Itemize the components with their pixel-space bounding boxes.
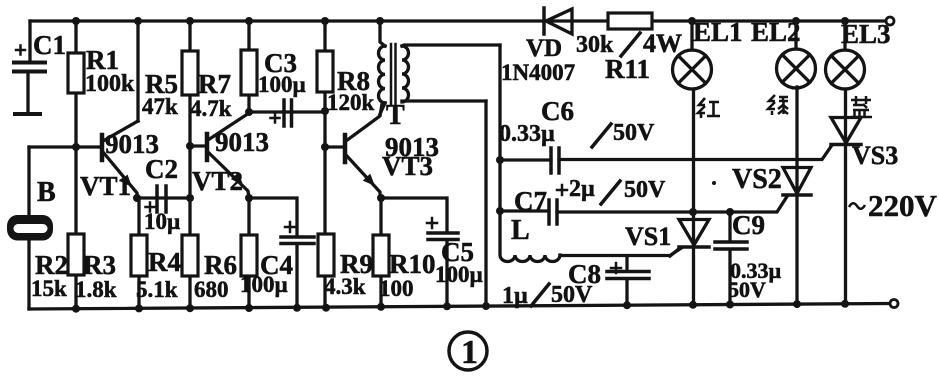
- figure number 1 in circle: [449, 332, 487, 370]
- transistor VT1: [102, 21, 138, 198]
- resistor R7: [241, 50, 257, 95]
- svg-text:VD: VD: [526, 35, 562, 62]
- resistor R1: [68, 53, 84, 93]
- wire left drop from rail to C1: [28, 21, 31, 61]
- lamp EL1: [673, 21, 712, 89]
- terminal circle top right: [886, 17, 894, 25]
- slash 30k/4W: [621, 33, 640, 56]
- svg-text:EL3: EL3: [841, 19, 891, 49]
- capacitor C5: [380, 198, 458, 306]
- wire secondary top to bottom rail: [484, 101, 487, 306]
- resistor R5: [182, 51, 198, 95]
- capacitor C6 and its wire: [500, 145, 832, 173]
- svg-text:R3: R3: [83, 250, 116, 280]
- hanzi blue: [851, 96, 872, 117]
- svg-text:120k: 120k: [327, 90, 375, 115]
- transistor VT3: [325, 104, 382, 198]
- svg-text:VS1: VS1: [625, 222, 671, 251]
- wire B column: [27, 147, 30, 309]
- svg-text:10µ: 10µ: [144, 209, 180, 234]
- svg-text:R6: R6: [204, 250, 237, 280]
- svg-text:VT3: VT3: [382, 151, 433, 181]
- resistor R10: [373, 235, 389, 276]
- wire top rail: [30, 19, 886, 22]
- svg-text:9013: 9013: [215, 127, 269, 157]
- slash C7: [601, 181, 620, 204]
- wire secondary bottom feed column: [498, 45, 501, 252]
- capacitor C9: [715, 212, 747, 305]
- svg-text:47k: 47k: [142, 94, 178, 119]
- svg-text:EL1: EL1: [693, 17, 743, 47]
- transformer T: [379, 21, 501, 114]
- wire R8-R9 column: [323, 21, 326, 308]
- svg-text:100µ: 100µ: [240, 272, 288, 297]
- resistor R6: [241, 235, 257, 276]
- hanzi red: [698, 98, 720, 118]
- capacitor C1: [14, 46, 45, 115]
- svg-text:C7: C7: [514, 186, 547, 216]
- terminal circle bottom right: [890, 300, 898, 308]
- resistor R11: [608, 13, 652, 29]
- resistor R3: [131, 235, 147, 276]
- svg-text:VS2: VS2: [732, 164, 782, 195]
- svg-text:5.1k: 5.1k: [136, 277, 178, 302]
- thyristor VS3: [831, 89, 861, 304]
- lamp EL2: [777, 21, 816, 88]
- capacitor C4: [249, 198, 314, 308]
- wire R1-R2 column: [74, 21, 77, 309]
- hanzi green: [768, 95, 788, 115]
- svg-text:L: L: [511, 215, 530, 246]
- transistor VT3 emitter arrow: [363, 174, 375, 186]
- svg-text:4.7k: 4.7k: [190, 96, 232, 121]
- slash C6: [592, 124, 611, 147]
- svg-text:VS3: VS3: [852, 141, 898, 170]
- resistor R4: [182, 235, 198, 276]
- capacitor C2: [137, 186, 189, 212]
- svg-text:VT1: VT1: [80, 171, 131, 201]
- svg-text:50V: 50V: [551, 282, 593, 308]
- svg-text:VT2: VT2: [192, 166, 243, 196]
- svg-text:B: B: [37, 177, 56, 208]
- wire R7 column: [247, 21, 250, 112]
- svg-text:R11: R11: [605, 54, 650, 84]
- svg-text:R10: R10: [389, 249, 436, 279]
- svg-text:50V: 50V: [624, 177, 666, 203]
- svg-text:1: 1: [461, 334, 478, 371]
- svg-text:100: 100: [379, 276, 414, 301]
- capacitor C8: [607, 257, 649, 305]
- svg-text:100µ: 100µ: [435, 262, 483, 287]
- wire VT1 base wire: [29, 145, 99, 148]
- diode VD: [544, 8, 572, 34]
- svg-text:4.3k: 4.3k: [324, 274, 366, 299]
- svg-text:R4: R4: [148, 247, 181, 277]
- svg-text:220V: 220V: [868, 188, 938, 223]
- svg-text:EL2: EL2: [751, 17, 801, 47]
- svg-text:T: T: [386, 100, 405, 131]
- svg-text:1.8k: 1.8k: [75, 277, 117, 302]
- wire R6 column: [247, 198, 250, 308]
- svg-text:R7: R7: [198, 69, 231, 99]
- transistor VT2: [190, 113, 249, 198]
- slash C8: [531, 284, 549, 306]
- svg-text:2µ: 2µ: [569, 176, 595, 202]
- thyristor VS1: [670, 89, 709, 305]
- svg-text:C9: C9: [732, 210, 765, 240]
- wire R10 column: [379, 198, 382, 307]
- svg-text:15k: 15k: [31, 276, 67, 301]
- svg-text:1µ: 1µ: [502, 283, 528, 309]
- tilde 220V: [849, 203, 865, 209]
- thyristor VS2: [783, 87, 811, 304]
- resistor R8: [317, 51, 333, 92]
- svg-text:680: 680: [194, 277, 229, 302]
- wire bottom rail: [29, 304, 890, 310]
- svg-text:100µ: 100µ: [258, 72, 306, 97]
- svg-text:C1: C1: [33, 30, 66, 60]
- svg-text:0.33µ: 0.33µ: [499, 121, 555, 147]
- svg-text:50V: 50V: [613, 120, 655, 146]
- inductor L: [500, 248, 682, 262]
- svg-text:100k: 100k: [85, 71, 135, 97]
- piezo sounder B: [7, 215, 53, 241]
- capacitor C7 and its wire: [500, 185, 787, 224]
- transistor VT2 emitter arrow: [231, 173, 243, 186]
- wire R3 column: [137, 198, 140, 308]
- transistor VT1 emitter arrow: [120, 175, 132, 188]
- resistor R2: [68, 234, 84, 275]
- lamp EL3: [826, 21, 865, 89]
- svg-text:1N4007: 1N4007: [501, 60, 575, 85]
- svg-text:C2: C2: [145, 154, 178, 184]
- capacitor C3: [249, 100, 325, 126]
- wire R5-R4 column: [188, 21, 191, 308]
- resistor R9: [318, 234, 334, 276]
- svg-text:50V: 50V: [728, 277, 766, 302]
